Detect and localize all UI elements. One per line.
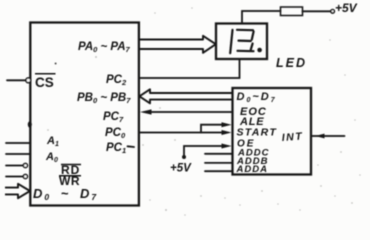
svg-text:PA0 ~ PA7: PA0 ~ PA7 [78, 41, 131, 54]
svg-text:D0~D7: D0~D7 [237, 91, 277, 104]
svg-text:INT: INT [281, 131, 303, 144]
svg-text:PB0 ~ PB7: PB0 ~ PB7 [77, 92, 131, 105]
svg-text:D0 ~ D7: D0 ~ D7 [33, 186, 98, 202]
svg-text:+5V: +5V [335, 1, 358, 15]
svg-text:+5V: +5V [170, 163, 192, 175]
svg-text:LED: LED [276, 56, 307, 70]
svg-text:START: START [237, 127, 278, 139]
svg-text:CS: CS [35, 75, 54, 90]
svg-text:ADDA: ADDA [236, 164, 268, 175]
